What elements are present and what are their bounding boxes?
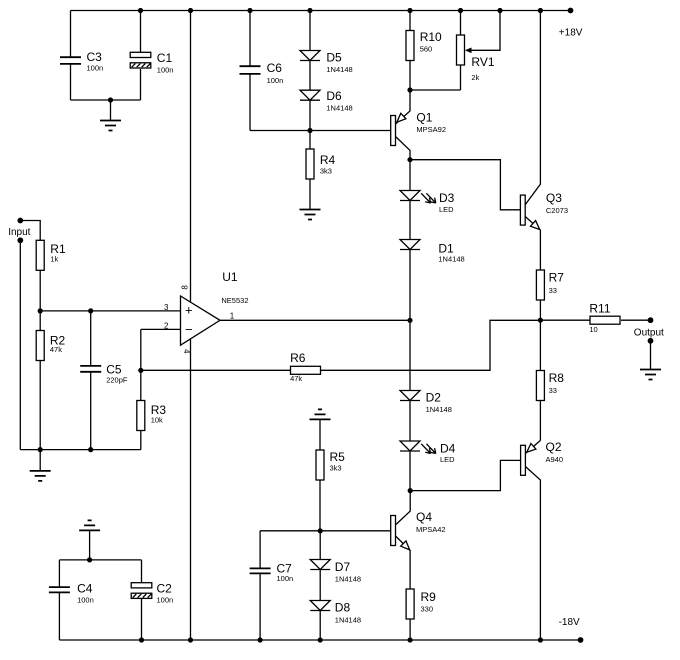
ground below output [640, 370, 661, 380]
wire Q2 emitter [525, 440, 540, 453]
svg-text:100n: 100n [77, 596, 94, 605]
svg-text:C1: C1 [157, 51, 173, 65]
wire C4-C2 top link [59, 559, 141, 561]
diode D8 [310, 601, 361, 625]
wire D7-D8 link [319, 570, 321, 601]
capacitor C5 [80, 363, 128, 385]
resistor R4 [306, 149, 336, 179]
wire pin2 node down [140, 329, 142, 370]
junction [88, 308, 93, 313]
svg-text:3k3: 3k3 [330, 464, 342, 473]
junction [538, 637, 543, 642]
wire -18V rail [59, 639, 580, 641]
svg-text:Q4: Q4 [416, 510, 432, 524]
arrowhead RV1 wiper [465, 48, 472, 54]
arrow Q1 emitter PNP [397, 113, 406, 122]
svg-text:-18V: -18V [559, 617, 580, 628]
wire C1 bottom lead [140, 69, 142, 100]
ground below C3/C1 [100, 121, 121, 131]
wire C4 top lead [58, 560, 60, 587]
junction [38, 447, 43, 452]
svg-text:1N4148: 1N4148 [335, 616, 361, 625]
inverted ground above C4/C2 [79, 520, 100, 530]
resistor R2 [36, 331, 65, 361]
svg-text:2: 2 [164, 322, 169, 331]
arrow Q4 emitter NPN [401, 541, 410, 550]
wire D2-D4 link [409, 401, 411, 442]
diode D7 [310, 560, 361, 584]
wire C5 top lead [90, 311, 92, 366]
wire C7 top lead [259, 531, 261, 569]
ground below input rail [30, 471, 51, 481]
svg-text:−: − [185, 322, 193, 337]
svg-text:NE5532: NE5532 [221, 296, 248, 305]
svg-text:2k: 2k [471, 73, 479, 82]
capacitor C3 [60, 50, 103, 73]
junction [38, 308, 43, 313]
transistor Q3 [520, 191, 568, 225]
svg-text:10: 10 [589, 325, 597, 334]
wire C6/D6/R4 node to Q1 base [250, 130, 391, 132]
wire Q1 emitter [396, 90, 411, 124]
diode D1 [400, 240, 465, 264]
diode D6 [300, 89, 353, 113]
diode D2 [400, 391, 452, 415]
junction [307, 8, 312, 13]
resistor R9 [406, 589, 436, 619]
svg-text:Input: Input [8, 227, 30, 238]
wire R10 top lead [409, 11, 411, 31]
wire D7 top lead [319, 531, 321, 560]
wire C3-C1 bottom link [71, 99, 141, 101]
svg-text:330: 330 [421, 605, 434, 614]
wire R2 top lead [39, 311, 41, 331]
svg-text:R4: R4 [320, 153, 336, 167]
wire C6 top lead [249, 11, 251, 67]
wire Q2 base jog [410, 460, 520, 490]
junction [88, 447, 93, 452]
svg-text:D3: D3 [439, 191, 455, 205]
wire noninverting input [40, 310, 180, 312]
wire C4C2 ground stem [89, 530, 91, 560]
svg-text:Q1: Q1 [416, 111, 432, 125]
svg-text:3k3: 3k3 [320, 167, 332, 176]
wire C7 node link [260, 530, 320, 532]
svg-text:RV1: RV1 [471, 55, 494, 69]
wire D8 bottom lead [319, 611, 321, 640]
wire C3 bottom lead [70, 64, 72, 100]
wire RV1 wiper feed [467, 11, 500, 51]
wire RV1 top lead [460, 11, 462, 36]
wire R11 to output terminal [621, 319, 651, 321]
wire Q2 collector [525, 467, 540, 641]
junction [139, 637, 144, 642]
transistor Q1 [391, 111, 446, 146]
svg-text:U1: U1 [222, 270, 238, 284]
terminal input ground [17, 237, 23, 243]
resistor R3 [137, 401, 167, 431]
terminal -18V [578, 637, 584, 643]
svg-text:Q2: Q2 [546, 440, 562, 454]
wire input ground stem [39, 450, 41, 471]
svg-text:LED: LED [439, 205, 454, 214]
svg-text:D1: D1 [438, 242, 454, 256]
svg-text:1N4148: 1N4148 [326, 104, 352, 113]
wire opamp V+ pin8 [190, 11, 192, 302]
terminal input signal [17, 218, 23, 224]
junction [138, 368, 143, 373]
svg-text:Output: Output [634, 328, 664, 339]
svg-text:10k: 10k [151, 416, 163, 425]
wire opamp V- pin4 to -18V rail [190, 340, 192, 641]
wire R5 bottom lead [319, 480, 321, 531]
op-amp U1 [164, 270, 249, 354]
wire C5 bottom lead [90, 372, 92, 450]
capacitor C7 [250, 562, 294, 584]
junction [458, 8, 463, 13]
wire input shield drop [19, 240, 21, 449]
junction [318, 528, 323, 533]
svg-text:Q3: Q3 [546, 191, 562, 205]
wire input ground rail [20, 449, 141, 451]
terminal +18V [568, 8, 574, 14]
resistor R6 [290, 351, 320, 383]
wire R10-RV1 bottom link [410, 89, 461, 91]
svg-text:C5: C5 [106, 363, 122, 377]
capacitor C6 [240, 61, 284, 85]
svg-text:R8: R8 [549, 371, 565, 385]
svg-text:D6: D6 [326, 89, 342, 103]
svg-text:+18V: +18V [559, 28, 583, 39]
wire opamp pin2 stub [141, 328, 181, 330]
wire D3 top lead [409, 160, 411, 191]
arrow Q3 emitter NPN [531, 221, 540, 230]
junction [408, 488, 413, 493]
junction [258, 637, 263, 642]
wire R2 bottom lead [39, 361, 41, 450]
resistor R5 [316, 450, 345, 480]
wire C1 top lead [140, 11, 142, 53]
svg-text:1N4148: 1N4148 [335, 575, 361, 584]
wire C6 bottom lead [249, 74, 251, 131]
junction [408, 637, 413, 642]
svg-text:1N4148: 1N4148 [426, 405, 452, 414]
wire R3 bottom lead [140, 431, 142, 450]
svg-text:47k: 47k [290, 374, 302, 383]
wire R5 ground stem [319, 419, 321, 450]
wire R4 bottom lead [309, 179, 311, 210]
svg-text:D5: D5 [326, 51, 342, 65]
svg-text:33: 33 [549, 286, 557, 295]
wire Q4 emitter [395, 536, 410, 589]
potentiometer RV1 [457, 35, 495, 82]
wire R3 top lead [140, 370, 142, 400]
junction [407, 157, 412, 162]
transistor Q2 [521, 440, 563, 475]
svg-text:R9: R9 [421, 590, 437, 604]
svg-text:+: + [185, 303, 193, 318]
wire D2 top lead [409, 320, 411, 390]
svg-text:1k: 1k [50, 255, 58, 264]
junction [138, 8, 143, 13]
svg-text:R6: R6 [290, 351, 306, 365]
wire Q3 emitter [525, 217, 540, 271]
wire R4 top lead [309, 131, 311, 150]
svg-text:1N4148: 1N4148 [326, 65, 352, 74]
wire Q3 collector [525, 11, 540, 205]
junction [407, 318, 412, 323]
svg-text:33: 33 [549, 386, 557, 395]
svg-text:220pF: 220pF [106, 376, 128, 385]
LED D3 [400, 191, 455, 215]
svg-text:R11: R11 [589, 302, 610, 316]
svg-text:R10: R10 [420, 30, 442, 44]
svg-text:3: 3 [164, 303, 169, 312]
ground below R4 [300, 210, 321, 220]
wire Q4 base lead [320, 530, 391, 532]
svg-text:C3: C3 [87, 50, 103, 64]
svg-text:C2: C2 [157, 582, 173, 596]
wire R1 bottom lead [39, 270, 41, 311]
wire D5 top lead [309, 11, 311, 51]
wire R10 bottom lead [409, 61, 411, 91]
svg-text:A940: A940 [546, 455, 564, 464]
capacitor C4 [49, 582, 94, 605]
wire Q1 collector [396, 137, 411, 160]
wire C4 bottom lead [58, 592, 60, 640]
svg-text:D8: D8 [335, 601, 351, 615]
junction [497, 8, 502, 13]
arrow Q2 emitter PNP [527, 444, 536, 453]
wire Q4 collector [395, 491, 410, 525]
svg-text:100n: 100n [157, 596, 174, 605]
svg-text:100n: 100n [87, 64, 104, 73]
inverted ground above R5 [310, 409, 331, 419]
wire D6 bottom lead [309, 101, 311, 131]
resistor R7 [536, 270, 564, 300]
svg-text:100n: 100n [267, 76, 284, 85]
wire opamp output [220, 319, 410, 321]
wire +18V rail [71, 10, 571, 12]
wire output node to R11 [540, 319, 590, 321]
capacitor C2 [131, 582, 173, 605]
svg-text:MPSA42: MPSA42 [416, 525, 446, 534]
svg-text:C2073: C2073 [546, 206, 568, 215]
wire R8 top lead [539, 320, 541, 370]
wire C2 top lead [141, 560, 143, 583]
resistor R8 [536, 371, 564, 401]
svg-text:R7: R7 [549, 271, 565, 285]
wire D3-D1 link [409, 201, 411, 240]
junction [108, 97, 113, 102]
svg-text:D4: D4 [440, 442, 456, 456]
wire R9 bottom lead [409, 619, 411, 640]
transistor Q4 [391, 510, 446, 546]
svg-text:1N4148: 1N4148 [438, 255, 464, 264]
wire C7 bottom lead [259, 573, 261, 640]
wire C3 top lead [70, 11, 72, 58]
svg-text:MPSA92: MPSA92 [416, 125, 446, 134]
wire D4 bottom lead [409, 451, 411, 491]
wire R8 bottom lead [539, 401, 541, 441]
wire Q1 collector to Q3 base jog [410, 160, 520, 210]
junction [307, 128, 312, 133]
resistor R10 [406, 30, 442, 61]
svg-text:100n: 100n [277, 574, 294, 583]
svg-text:R5: R5 [330, 450, 346, 464]
svg-text:1: 1 [230, 312, 235, 321]
LED D4 [400, 441, 456, 464]
wire RV1 bottom lead [460, 65, 462, 90]
junction [407, 8, 412, 13]
svg-text:D7: D7 [335, 560, 351, 574]
terminal output ground [648, 338, 654, 344]
junction [538, 318, 543, 323]
diode D5 [300, 51, 353, 75]
junction [87, 557, 92, 562]
wire output ground stem [650, 341, 652, 370]
svg-text:D2: D2 [426, 391, 442, 405]
capacitor C1 [130, 51, 173, 75]
resistor R1 [36, 240, 66, 270]
wire input terminal to R1 [20, 221, 40, 241]
wire feedback node to R6 [141, 369, 291, 371]
svg-text:4: 4 [182, 349, 191, 354]
junction [188, 637, 193, 642]
wire R6 to output node jog [321, 320, 541, 370]
wire D5-D6 link [309, 61, 311, 90]
resistor R11 [589, 302, 620, 335]
junction [407, 87, 412, 92]
svg-text:8: 8 [180, 285, 189, 290]
wire R7 bottom lead [539, 300, 541, 320]
svg-text:LED: LED [440, 455, 455, 464]
terminal output signal [648, 317, 654, 323]
junction [318, 637, 323, 642]
wire D1 to opamp output node [409, 250, 411, 321]
junction [247, 8, 252, 13]
wire C2 bottom lead [141, 599, 143, 641]
svg-text:47k: 47k [50, 345, 62, 354]
wire ground stem below C3/C1 [110, 100, 112, 121]
junction [538, 8, 543, 13]
svg-text:100n: 100n [157, 66, 174, 75]
svg-text:560: 560 [420, 45, 433, 54]
svg-text:C6: C6 [267, 61, 283, 75]
junction [188, 8, 193, 13]
svg-text:C4: C4 [77, 582, 93, 596]
